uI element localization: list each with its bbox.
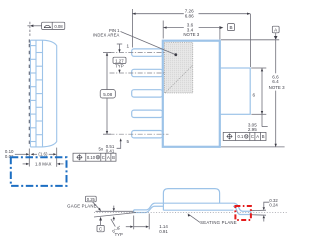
angle 0-8 TYP	[111, 219, 123, 237]
gage plane line	[96, 210, 134, 212]
body slab	[155, 203, 235, 211]
dimension 6.6 / 6.4 NOTE 3	[269, 40, 285, 147]
svg-text:0.10: 0.10	[87, 155, 96, 160]
side view lead bricks column 1	[30, 46, 36, 142]
flatness feature control frame 0.08	[27, 22, 64, 37]
body top edge extension line	[221, 39, 279, 41]
svg-text:5.08: 5.08	[103, 92, 112, 97]
svg-text:SEATING PLANE: SEATING PLANE	[200, 220, 237, 225]
svg-text:1.8 MAX: 1.8 MAX	[35, 162, 52, 167]
package body outline	[163, 41, 220, 147]
dimension 1.8 MAX	[23, 162, 64, 167]
svg-text:0.1: 0.1	[237, 134, 243, 139]
feature control frame position 0.10 C A B (left)	[73, 153, 116, 161]
dimension 5.08	[100, 53, 115, 135]
pin 2 centerline	[110, 72, 167, 74]
svg-text:GAGE PLANE: GAGE PLANE	[67, 204, 97, 209]
datum C	[97, 217, 104, 232]
svg-text:M: M	[245, 135, 248, 139]
lead underside angled line	[94, 213, 136, 218]
feature control frame position 0.1 C A B (right)	[223, 132, 266, 140]
pin 5	[132, 131, 163, 138]
svg-text:2.95: 2.95	[248, 127, 257, 132]
mold dome	[163, 189, 219, 203]
svg-text:TYP: TYP	[115, 64, 124, 69]
svg-text:C: C	[251, 134, 254, 139]
svg-text:NOTE 3: NOTE 3	[183, 32, 199, 37]
svg-text:(1.6): (1.6)	[38, 152, 48, 157]
svg-text:B: B	[229, 25, 232, 30]
dimension (1.6)	[31, 152, 57, 157]
pin 5 centerline	[110, 133, 169, 135]
svg-text:0.91: 0.91	[159, 229, 168, 234]
dimension 3.05 / 2.95 (tab)	[248, 68, 268, 132]
left lead profile	[134, 203, 164, 212]
body bottom edge extension line	[221, 146, 285, 148]
svg-text:B: B	[262, 134, 265, 139]
dimension 1.27 TYP	[113, 44, 126, 73]
pin 4	[132, 110, 163, 117]
datum A	[272, 26, 279, 40]
datum B	[219, 24, 234, 31]
svg-text:C: C	[102, 155, 105, 160]
svg-text:0.25: 0.25	[87, 197, 96, 202]
PIN 1 INDEX AREA label	[93, 28, 177, 56]
dimension 1.14/0.91	[126, 214, 169, 235]
pin 1 index hatched area	[164, 43, 193, 93]
svg-text:5x: 5x	[99, 146, 104, 151]
red highlight box	[235, 206, 251, 220]
svg-text:A: A	[107, 155, 110, 160]
svg-text:1: 1	[127, 43, 130, 48]
extension lines below side view	[28, 149, 30, 167]
gage plane 0.25 dimension	[67, 196, 115, 221]
seating plane label	[188, 213, 237, 225]
svg-text:6.4: 6.4	[272, 79, 279, 84]
pin 3	[132, 90, 163, 97]
svg-text:TYP: TYP	[115, 232, 123, 237]
dimension 5x 0.51/0.41	[99, 138, 122, 153]
pin 1 centerline	[110, 52, 167, 54]
dimension 3.6 / 3.4 NOTE 3	[163, 21, 220, 40]
dimension 0.10/0.02	[5, 149, 29, 159]
svg-text:0.08: 0.08	[54, 24, 63, 29]
svg-text:5: 5	[127, 139, 130, 144]
svg-text:0.24: 0.24	[269, 202, 278, 207]
svg-text:6: 6	[253, 92, 256, 97]
thermal pad dashed outline	[11, 157, 67, 186]
pin 1	[132, 49, 163, 56]
side view lead tips (dark ticks)	[28, 39, 30, 147]
tab (pin 6)	[220, 68, 250, 114]
side view outline	[30, 40, 56, 147]
dimension 7.26 / 6.86	[132, 9, 250, 67]
dimension 0.32/0.24	[251, 198, 279, 222]
svg-text:NOTE 3: NOTE 3	[269, 85, 285, 90]
svg-text:B: B	[112, 155, 115, 160]
svg-text:M: M	[97, 156, 100, 160]
svg-text:A: A	[256, 134, 259, 139]
tab lead profile (right)	[233, 203, 250, 214]
seating plane dotted line	[94, 211, 288, 213]
svg-text:6.86: 6.86	[185, 14, 194, 19]
pin 2	[132, 69, 163, 76]
svg-text:INDEX AREA: INDEX AREA	[93, 33, 120, 38]
side view lead bricks column 2	[36, 53, 43, 135]
